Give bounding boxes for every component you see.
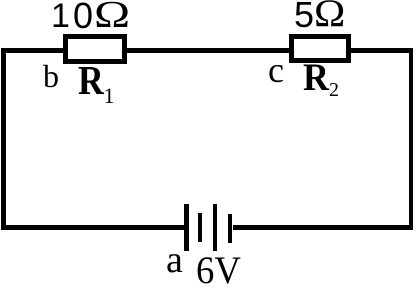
node a	[166, 241, 183, 279]
node c	[268, 52, 284, 88]
battery B1 plate long left	[184, 204, 189, 251]
battery B1 plate long right	[213, 204, 217, 252]
wire left side	[1, 48, 6, 230]
value label 10 ohm digit 0	[73, 0, 93, 34]
value label 5 ohm digit 5	[294, 0, 314, 33]
value label 10 ohm omega	[94, 0, 130, 34]
wire right side	[409, 48, 413, 230]
resistor label R1 subscript 1	[104, 85, 115, 107]
node b	[43, 60, 59, 92]
wire bottom right segment	[233, 225, 414, 230]
resistor R2	[289, 34, 351, 63]
resistor label R1 letter R	[78, 60, 104, 101]
value label 5 ohm omega	[314, 0, 345, 33]
resistor label R2 subscript 2	[329, 80, 339, 100]
resistor R1	[63, 34, 127, 64]
resistor label R2 letter R	[303, 58, 329, 97]
battery B1 plate short right	[228, 214, 233, 244]
battery B1 plate short	[198, 213, 202, 242]
wire bottom left segment	[1, 225, 184, 230]
value label 10 ohm digit 1	[51, 0, 70, 33]
value label 6V	[196, 251, 241, 290]
wire top	[1, 48, 413, 53]
